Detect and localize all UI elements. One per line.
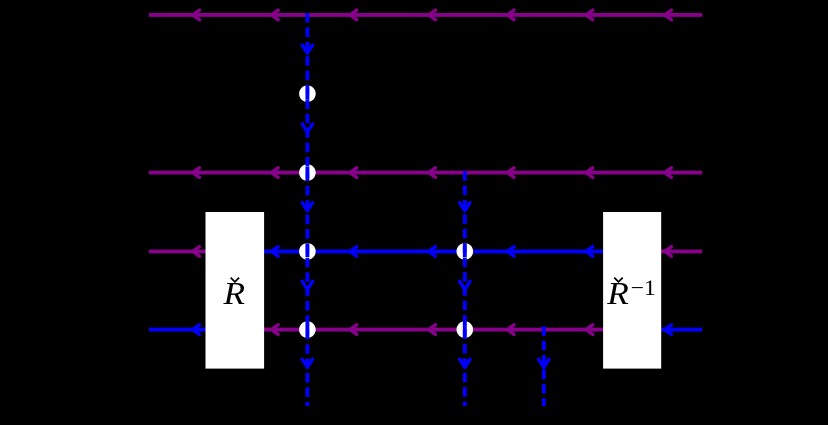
wire row4 right stub blue from box R-inverse bbox=[659, 325, 702, 335]
wire row3 left stub purple into box R bbox=[149, 247, 208, 257]
wire row4 left stub blue into box R bbox=[149, 325, 208, 335]
node a3 crossing marker line A x row3 bbox=[299, 243, 316, 260]
svg-text:−1: −1 bbox=[631, 275, 656, 300]
node b3 crossing marker line B x row3 bbox=[457, 243, 474, 260]
wire row1 horizontal purple line with left arrows bbox=[149, 10, 702, 20]
label R-check inside box U1 bbox=[222, 275, 245, 311]
node b4 crossing marker line B x row4 bbox=[457, 321, 474, 338]
op-amp U1 box R-check (white rectangle) bbox=[206, 212, 265, 369]
wire row4 middle purple between box R and box R-inverse bbox=[262, 325, 605, 335]
node a1 crossing marker on dashed line A bbox=[299, 85, 316, 102]
wire row3 middle blue between box R and box R-inverse bbox=[262, 247, 605, 257]
wire dashed vertical line C blue with down arrow bbox=[539, 326, 549, 406]
wire dashed vertical line B blue with down arrows bbox=[460, 171, 470, 406]
op-amp U2 box R-check-inverse (white rectangle) bbox=[603, 212, 661, 369]
wire dashed vertical line A blue with down arrows bbox=[302, 13, 312, 406]
wire row3 right stub purple from box R-inverse bbox=[659, 247, 702, 257]
label R-check-inverse inside box U2 bbox=[606, 275, 656, 311]
node a2 crossing marker line A x row2 bbox=[299, 164, 316, 181]
node a4 crossing marker line A x row4 bbox=[299, 321, 316, 338]
wire row2 horizontal purple line with left arrows bbox=[149, 168, 702, 178]
